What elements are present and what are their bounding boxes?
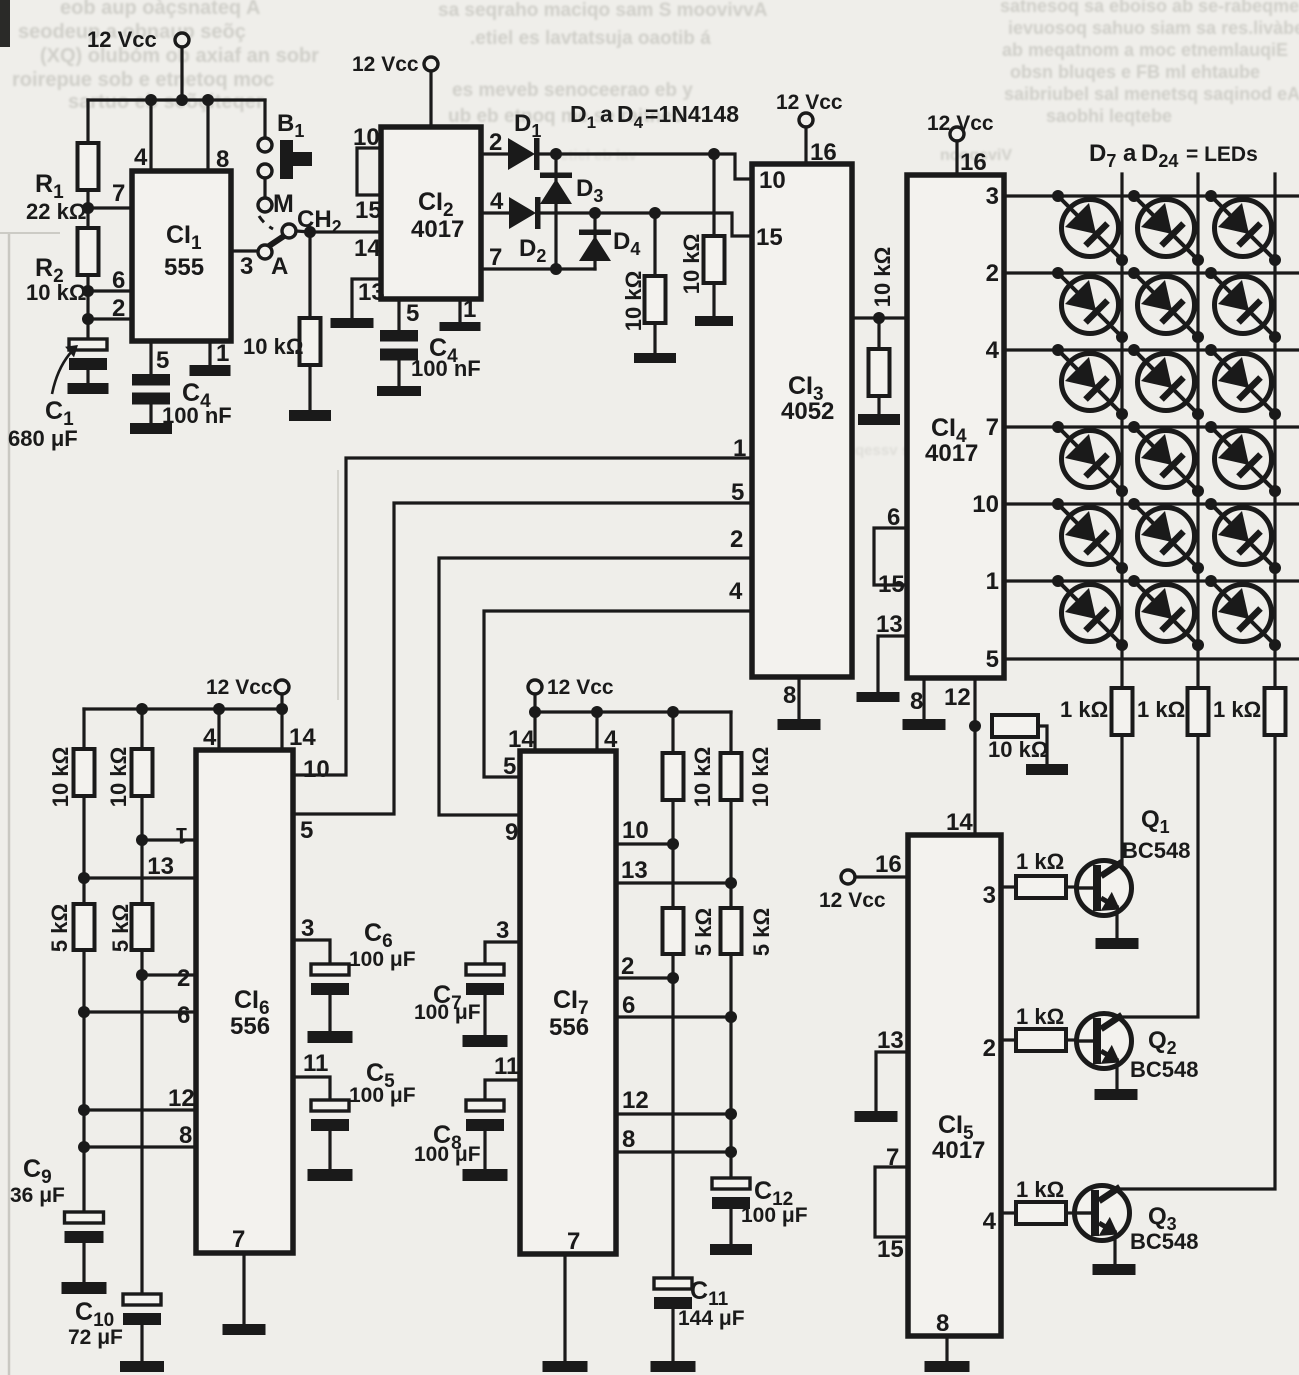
wire pin 12 (CI7)	[616, 1087, 731, 1114]
wire pin 6 (CI6)	[84, 1002, 196, 1029]
svg-text:10: 10	[303, 756, 330, 783]
svg-text:4: 4	[604, 726, 618, 753]
wire bus to B1	[263, 100, 266, 138]
svg-text:4: 4	[134, 144, 148, 171]
svg-text:10 kΩ: 10 kΩ	[679, 234, 704, 294]
svg-text:556: 556	[549, 1014, 589, 1041]
svg-text:4: 4	[986, 337, 1000, 364]
svg-text:100 nF: 100 nF	[411, 356, 481, 381]
svg-text:555: 555	[164, 254, 204, 281]
LED D14	[1128, 344, 1204, 420]
Q3 emitter ground	[1093, 1238, 1136, 1275]
svg-text:14: 14	[289, 724, 316, 751]
svg-text:12 Vcc: 12 Vcc	[206, 676, 273, 699]
svg-text:36 μF: 36 μF	[10, 1184, 65, 1207]
pin 3 wire (CI7)	[485, 917, 520, 964]
svg-text:11: 11	[303, 1050, 328, 1077]
wire inner right lower (CI7)	[667, 954, 679, 1278]
svg-text:5 kΩ: 5 kΩ	[691, 908, 716, 956]
capacitor C7 100 uF	[414, 964, 508, 1047]
resistor 10 kOhm (line B pulldown)	[621, 213, 676, 363]
pin 7-15 bracket (CI5)	[875, 1144, 908, 1263]
wire pin 10 (CI7)	[616, 817, 673, 844]
pin 5 label (CI7)	[503, 753, 516, 780]
LED D22	[1052, 575, 1128, 651]
svg-text:8: 8	[179, 1122, 192, 1149]
resistor 1 kOhm (column 1)	[1060, 659, 1133, 735]
capacitor C6 100 uF	[308, 919, 416, 1043]
svg-text:100 μF: 100 μF	[414, 1143, 481, 1166]
resistor 5 kOhm (CI6 inner)	[108, 796, 153, 952]
wire outer left (CI6)	[78, 796, 90, 904]
svg-text:12 Vcc: 12 Vcc	[547, 676, 614, 699]
wire pin 6 (CI7)	[616, 992, 731, 1019]
svg-text:4: 4	[729, 578, 743, 605]
resistor 10 kOhm (CI6 left outer)	[48, 709, 95, 807]
switch lever dashes	[259, 216, 273, 229]
svg-text:5 kΩ: 5 kΩ	[47, 904, 72, 952]
svg-text:6: 6	[622, 992, 635, 1019]
label CH2	[297, 206, 342, 237]
capacitor C11 144 uF	[651, 1277, 745, 1372]
svg-text:7: 7	[489, 244, 502, 271]
svg-text:1 kΩ: 1 kΩ	[1060, 697, 1108, 722]
capacitor C4 100 nF (at CI2)	[377, 330, 481, 396]
svg-text:4017: 4017	[932, 1137, 985, 1164]
pin 11 wire (CI7)	[485, 1053, 520, 1100]
CI4 pin 4 row wire	[986, 337, 1299, 364]
pin 7 wire (CI2)	[481, 244, 595, 275]
pin 11 wire (CI6)	[294, 1050, 330, 1100]
pin 4 label (CI3)	[729, 578, 743, 605]
LED D21	[1205, 498, 1281, 574]
svg-text:10 kΩ: 10 kΩ	[748, 747, 773, 807]
wire pin 8 (CI6)	[84, 1122, 196, 1149]
pin 7 wire + ground (CI7)	[543, 1228, 588, 1372]
wire inner right (CI7)	[667, 800, 679, 908]
supply bus (CI7)	[529, 706, 731, 718]
svg-text:8: 8	[216, 146, 229, 173]
svg-text:7: 7	[986, 414, 999, 441]
svg-text:eob aup oàçsnateq A: eob aup oàçsnateq A	[60, 0, 260, 19]
pin 8 wire + ground (CI5)	[925, 1310, 970, 1372]
wire CI3 pin2 to CI7 pin9	[439, 558, 752, 815]
pin 10 label (CI3)	[759, 167, 786, 194]
svg-text:ab meqatnom a moc etnemlauqiE: ab meqatnom a moc etnemlauqiE	[1002, 40, 1288, 60]
svg-text:5: 5	[986, 646, 999, 673]
svg-text:10: 10	[759, 167, 786, 194]
resistor 10 kOhm (CI7 right outer)	[721, 712, 774, 807]
svg-text:2: 2	[621, 953, 634, 980]
LED D13	[1052, 344, 1128, 420]
LED column line 2	[1196, 174, 1199, 659]
node pin7/R1/R2	[82, 190, 94, 228]
svg-text:3: 3	[986, 183, 999, 210]
svg-text:13: 13	[147, 853, 174, 880]
svg-text:.etiel es lavtatsuja oaotib á: .etiel es lavtatsuja oaotib á	[470, 28, 711, 49]
svg-text:13: 13	[621, 857, 648, 884]
LED D15	[1205, 344, 1281, 420]
capacitor C5 100 uF	[308, 1059, 416, 1181]
IC CI7 556 box	[520, 751, 616, 1254]
pin 10-15 bracket (CI2)	[353, 124, 382, 224]
svg-text:9: 9	[505, 819, 518, 846]
svg-text:10 kΩ: 10 kΩ	[621, 271, 646, 331]
LED D17	[1128, 421, 1204, 497]
label D7 a D24 = LEDs	[1089, 140, 1258, 171]
diode D1 1N4148	[508, 110, 541, 170]
svg-text:5: 5	[300, 817, 313, 844]
svg-text:2: 2	[730, 526, 743, 553]
svg-text:10: 10	[972, 491, 999, 518]
svg-text:satnesoq sa eboiso ab se-rabeq: satnesoq sa eboiso ab se-rabeqmei	[1000, 0, 1299, 16]
svg-text:1: 1	[986, 568, 999, 595]
pin 13 wire + ground (CI5)	[855, 1027, 909, 1122]
svg-text:3: 3	[301, 915, 314, 942]
pin 3 wire (CI6)	[294, 915, 330, 964]
svg-text:14: 14	[508, 726, 535, 753]
node pin2	[82, 313, 94, 339]
svg-text:100 nF: 100 nF	[162, 403, 232, 428]
resistor 1 kOhm (Q3 base)	[1016, 1177, 1075, 1224]
svg-text:4: 4	[983, 1208, 997, 1235]
svg-text:680 μF: 680 μF	[8, 426, 78, 451]
pin 4 wire (CI1)	[134, 100, 151, 171]
LED D20	[1128, 498, 1204, 574]
power terminal 12 Vcc (CI5)	[819, 851, 908, 912]
svg-text:BC548: BC548	[1122, 838, 1190, 863]
pin 4 wire (CI7)	[597, 712, 618, 753]
svg-text:10 kΩ: 10 kΩ	[26, 280, 86, 305]
IC CI5 4017 box	[908, 835, 1001, 1336]
wire pin 13 (CI6)	[84, 853, 196, 880]
pin 15 label (CI3)	[756, 224, 783, 251]
wire column1 to Q1 collector	[1120, 735, 1123, 867]
svg-text:2: 2	[986, 260, 999, 287]
capacitor C4 100 nF (at CI1)	[130, 374, 232, 434]
CI4 pin 5 row wire	[986, 646, 1299, 673]
svg-text:12 Vcc: 12 Vcc	[352, 53, 419, 76]
svg-text:10 kΩ: 10 kΩ	[690, 747, 715, 807]
svg-text:144 μF: 144 μF	[678, 1307, 745, 1330]
pin 4 wire (CI6)	[203, 709, 219, 751]
svg-text:7: 7	[112, 180, 125, 207]
IC CI4 4017 box	[907, 175, 1004, 678]
IC CI3 4052 box	[752, 164, 852, 677]
wire bus to R1	[86, 100, 89, 143]
pin 13 wire + ground (CI2)	[331, 279, 385, 328]
resistor 10 kOhm (CI4 pin14)	[858, 247, 900, 425]
LED column line 3	[1273, 174, 1276, 659]
svg-text:7: 7	[567, 1228, 580, 1255]
svg-text:1: 1	[176, 823, 188, 848]
svg-text:100 μF: 100 μF	[349, 948, 416, 971]
CI4 pin 7 row wire	[986, 414, 1299, 441]
wire pin 2 (CI7)	[616, 953, 673, 980]
svg-text:11: 11	[494, 1053, 519, 1080]
svg-text:1 kΩ: 1 kΩ	[1016, 849, 1064, 874]
svg-text:1 kΩ: 1 kΩ	[1016, 1177, 1064, 1202]
svg-text:8: 8	[622, 1126, 635, 1153]
node line A (D1 output)	[540, 148, 752, 179]
pin 8 wire (CI1)	[208, 100, 229, 173]
svg-text:12 Vcc: 12 Vcc	[87, 27, 157, 52]
svg-text:100 μF: 100 μF	[414, 1001, 481, 1024]
wire outer left lower (CI6)	[78, 950, 90, 1212]
svg-text:10 kΩ: 10 kΩ	[870, 247, 895, 307]
LED D10	[1052, 267, 1128, 343]
svg-text:10 kΩ: 10 kΩ	[48, 747, 73, 807]
pin 13 wire + ground (CI4)	[857, 611, 908, 702]
svg-text:6: 6	[887, 504, 900, 531]
capacitor C1 680 uF	[8, 339, 109, 451]
pin 14 label (CI2)	[354, 235, 381, 262]
svg-text:ievuosoq sahuo siam sa res.liv: ievuosoq sahuo siam sa res.livàbe	[1008, 18, 1299, 38]
svg-text:12 Vcc: 12 Vcc	[819, 889, 886, 912]
pin 5 label (CI3)	[731, 479, 744, 506]
LED D24	[1205, 575, 1281, 651]
svg-text:7: 7	[232, 1226, 245, 1253]
resistor 10 kOhm (CI4 pin12)	[988, 715, 1068, 775]
pin 3 wire (CI5)	[983, 882, 1016, 909]
op IC CI1 555 box	[132, 171, 231, 341]
transistor Q1 BC548	[1077, 806, 1191, 916]
node pin6	[82, 275, 94, 319]
diode D2 1N4148	[509, 197, 546, 266]
LED D16	[1052, 421, 1128, 497]
LED D18	[1205, 421, 1281, 497]
supply bus node (CI1 area)	[88, 94, 265, 106]
svg-text:15: 15	[355, 197, 382, 224]
svg-text:saibriubel sal menetsq saqinod: saibriubel sal menetsq saqinod eA	[1004, 84, 1299, 104]
svg-text:8: 8	[936, 1310, 949, 1337]
svg-text:BC548: BC548	[1130, 1057, 1198, 1082]
svg-text:4017: 4017	[411, 216, 464, 243]
wire pin 13 (CI7)	[616, 857, 737, 889]
capacitor C9 36 uF	[10, 1155, 107, 1294]
LED D12	[1205, 267, 1281, 343]
wire pin 7	[88, 180, 132, 208]
svg-text:12: 12	[168, 1085, 195, 1112]
power terminal 12 Vcc (CI7)	[528, 676, 614, 712]
LED D8	[1128, 190, 1204, 266]
svg-text:5: 5	[503, 753, 516, 780]
svg-text:12: 12	[944, 684, 971, 711]
wire CH2 to CI2 pin 14	[296, 226, 381, 238]
LED D7	[1052, 190, 1128, 266]
pin 4 wire (CI2)	[481, 188, 509, 215]
svg-text:4017: 4017	[925, 440, 978, 467]
LED column line 1	[1120, 174, 1123, 659]
label D1 a D4 = 1N4148	[570, 101, 739, 132]
power terminal 12 Vcc (CI6)	[206, 676, 289, 709]
pushbutton B1 contacts	[258, 110, 312, 179]
pin 7 wire + ground (CI6)	[223, 1226, 266, 1335]
resistor 1 kOhm (Q1 base)	[1016, 849, 1077, 898]
power terminal 12 Vcc (CI2)	[352, 53, 438, 128]
pin 6-15 bracket (CI4)	[874, 504, 907, 598]
resistor 10 kOhm (CI7 right inner)	[663, 712, 716, 807]
svg-text:2: 2	[489, 129, 502, 156]
svg-text:3: 3	[983, 882, 996, 909]
svg-text:13: 13	[877, 1027, 904, 1054]
svg-text:2: 2	[983, 1035, 996, 1062]
svg-text:14: 14	[946, 809, 973, 836]
svg-text:12 Vcc: 12 Vcc	[776, 91, 843, 114]
switch pole + lever (CH2)	[258, 224, 296, 280]
resistor 5 kOhm (CI6 outer)	[47, 904, 95, 952]
svg-text:1 kΩ: 1 kΩ	[1213, 697, 1261, 722]
svg-text:a: a	[1123, 140, 1137, 167]
svg-text:2: 2	[112, 295, 125, 322]
pin 1 wire + ground (CI1)	[190, 340, 231, 376]
wire CI3 pin5 to CI6 pin5	[294, 503, 752, 814]
svg-text:556: 556	[230, 1013, 270, 1040]
svg-text:13: 13	[876, 611, 903, 638]
svg-text:10 kΩ: 10 kΩ	[243, 334, 303, 359]
wire pin 6	[88, 267, 132, 294]
capacitor C12 100 uF	[710, 1177, 808, 1255]
pin 14 wire (CI6)	[282, 709, 316, 751]
wire column3 to Q3 collector	[1120, 735, 1275, 1189]
svg-text:1: 1	[216, 340, 229, 367]
capacitor C10 72 uF	[68, 1294, 164, 1372]
svg-text:22 kΩ: 22 kΩ	[26, 199, 86, 224]
pin 3 wire (CI1 output)	[231, 251, 258, 280]
CI4 pin 10 row wire	[972, 491, 1299, 518]
svg-text:7: 7	[886, 1144, 899, 1171]
svg-text:6: 6	[112, 267, 125, 294]
LED D19	[1052, 498, 1128, 574]
svg-text:8: 8	[910, 688, 923, 715]
svg-text:16: 16	[875, 851, 902, 878]
svg-text:a: a	[600, 101, 613, 127]
node line B (D2 output)	[541, 207, 752, 236]
svg-text:72 μF: 72 μF	[68, 1326, 123, 1349]
pin 8 wire + ground (CI3)	[778, 677, 821, 730]
svg-text:5: 5	[406, 300, 419, 327]
switch contact M	[258, 190, 294, 218]
pin 2 wire (CI2)	[481, 129, 508, 156]
svg-text:14: 14	[354, 235, 381, 262]
svg-text:1: 1	[463, 296, 476, 323]
wire B1 to M contact	[263, 178, 266, 199]
wire pin 8 (CI7)	[616, 1126, 731, 1153]
svg-text:saobhi leqtebe: saobhi leqtebe	[1046, 106, 1172, 126]
svg-text:4: 4	[490, 188, 504, 215]
svg-text:10: 10	[622, 817, 649, 844]
supply bus (CI6)	[84, 703, 288, 715]
pin 2 label (CI3)	[730, 526, 743, 553]
power terminal 12 Vcc (CI3)	[776, 91, 843, 166]
svg-text:5 kΩ: 5 kΩ	[108, 904, 133, 952]
transistor Q2 BC548	[1077, 1014, 1199, 1083]
svg-text:10: 10	[353, 124, 380, 151]
resistor 1 kOhm (column 3)	[1213, 659, 1286, 735]
svg-text:8: 8	[783, 682, 796, 709]
wire inner left lower (CI6)	[140, 950, 143, 1294]
svg-text:=1N4148: =1N4148	[645, 101, 739, 127]
svg-text:obsn bluqes e FB ml ehtaube: obsn bluqes e FB ml ehtaube	[1010, 62, 1260, 82]
wire CI3 pin1 to CI6 pin10	[294, 458, 752, 775]
svg-text:BC548: BC548	[1130, 1229, 1198, 1254]
svg-text:100 μF: 100 μF	[741, 1204, 808, 1227]
diode D3 1N4148 (vertical)	[540, 154, 603, 269]
pin 14 wire (CI7)	[508, 712, 535, 753]
pin 1 label (CI3)	[733, 435, 746, 462]
pin 5 wire (CI1)	[151, 341, 169, 374]
pin 2 wire (CI5)	[983, 1035, 1016, 1062]
resistor 1 kOhm (column 2)	[1137, 659, 1209, 735]
CI4 pin 1 row wire	[986, 568, 1299, 595]
svg-text:es meveb senoceerao eb y: es meveb senoceerao eb y	[452, 80, 693, 101]
svg-text:M: M	[273, 190, 294, 218]
LED D23	[1128, 575, 1204, 651]
pin 10 label (CI6)	[303, 756, 330, 783]
Q2 emitter ground	[1095, 1066, 1138, 1100]
resistor 10 kOhm (CH2 pulldown)	[243, 232, 331, 421]
resistor 10 kOhm (CI6 left inner)	[106, 709, 153, 807]
resistor 1 kOhm (Q2 base)	[1016, 1004, 1077, 1051]
pin 12 wire (CI4)	[944, 678, 981, 732]
svg-text:1 kΩ: 1 kΩ	[1137, 697, 1185, 722]
svg-text:10 kΩ: 10 kΩ	[106, 747, 131, 807]
svg-text:3: 3	[496, 917, 509, 944]
pin 4 wire (CI5)	[983, 1208, 1016, 1235]
wire pin 2	[88, 295, 132, 322]
svg-text:1 kΩ: 1 kΩ	[1016, 1004, 1064, 1029]
svg-text:3: 3	[240, 253, 253, 280]
svg-text:13: 13	[358, 279, 385, 306]
svg-text:16: 16	[960, 149, 987, 176]
CI4 pin 3 row wire	[986, 183, 1299, 210]
svg-text:roirepue sob e etnetoq moc: roirepue sob e etnetoq moc	[12, 69, 274, 91]
svg-text:10 kΩ: 10 kΩ	[988, 737, 1048, 762]
resistor R2 10 kOhm	[26, 228, 99, 305]
pin 1 wire + ground (CI2)	[440, 296, 481, 331]
wire CI3 pin14 link to CI4	[852, 307, 942, 334]
IC CI2 4017 box	[381, 127, 481, 299]
resistor 5 kOhm (CI7 outer)	[721, 800, 775, 956]
svg-text:100 μF: 100 μF	[349, 1084, 416, 1107]
svg-text:6: 6	[177, 1002, 190, 1029]
svg-text:5 kΩ: 5 kΩ	[749, 908, 774, 956]
CI4 pin 2 row wire	[986, 260, 1299, 287]
svg-text:4: 4	[203, 724, 217, 751]
power terminal 12 Vcc (CI4)	[927, 112, 994, 176]
Q1 emitter ground	[1096, 913, 1139, 949]
svg-text:= LEDs: = LEDs	[1186, 143, 1258, 166]
resistor 10 kOhm (line A pulldown)	[679, 154, 733, 326]
IC CI6 556 box	[196, 750, 293, 1253]
svg-text:12: 12	[622, 1087, 649, 1114]
svg-text:2: 2	[177, 965, 190, 992]
LED D9	[1205, 190, 1281, 266]
diode D4 1N4148 (vertical)	[579, 213, 640, 269]
pin 8 wire + ground (CI4)	[903, 678, 946, 730]
svg-text:4052: 4052	[781, 398, 834, 425]
svg-text:15: 15	[877, 1236, 904, 1263]
transistor Q3 BC548	[1075, 1186, 1199, 1255]
wire pin 1 (CI6)	[136, 823, 196, 848]
svg-text:15: 15	[878, 571, 905, 598]
svg-text:15: 15	[756, 224, 783, 251]
wire CI3 pin4 to CI7 pin5	[484, 611, 752, 777]
svg-text:5: 5	[156, 347, 169, 374]
svg-text:sartuo eb seõçiteqer: sartuo eb seõçiteqer	[68, 91, 264, 113]
wire outer right lower (CI7)	[725, 954, 737, 1178]
pin 5 label (CI6)	[300, 817, 313, 844]
